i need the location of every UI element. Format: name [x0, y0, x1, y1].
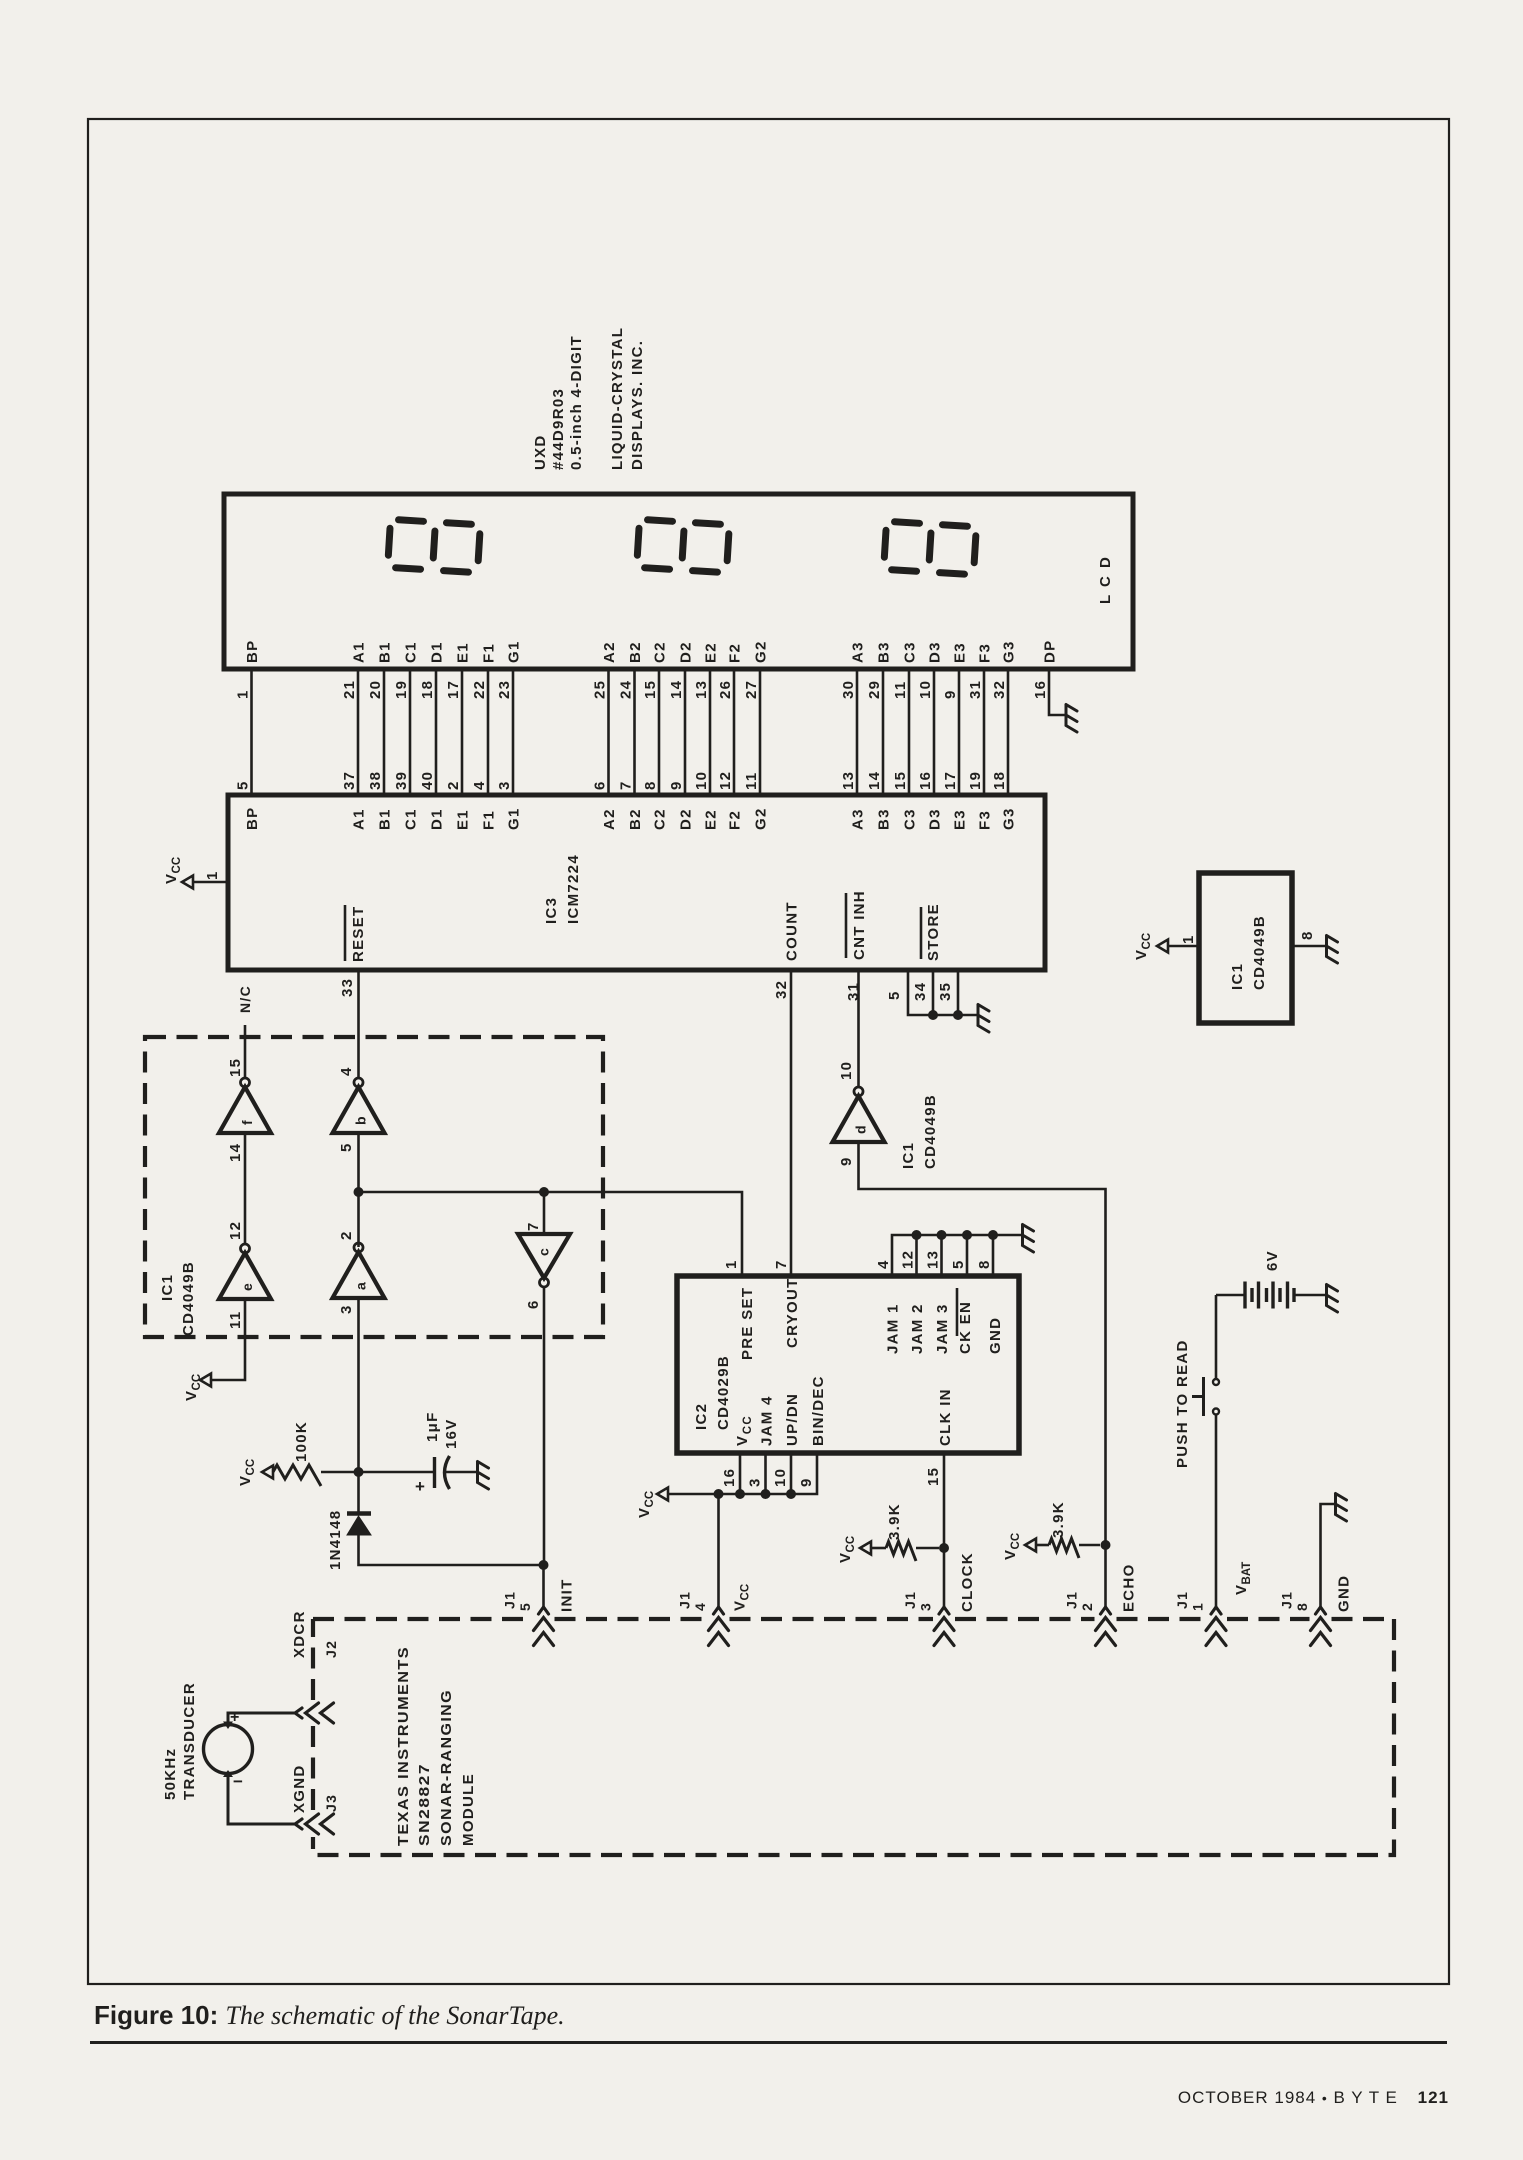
svg-text:11: 11 [227, 1311, 244, 1329]
wire switch to connector J1-1 [1215, 1415, 1218, 1608]
VCC arrow at inverter e pin 11 [200, 1374, 211, 1387]
svg-text:32: 32 [991, 680, 1008, 699]
svg-text:D3: D3 [927, 641, 944, 663]
connector J1-1 VBAT [1174, 1562, 1253, 1646]
svg-text:D3: D3 [927, 808, 944, 830]
battery 6V [1216, 1250, 1326, 1308]
ground at IC2 JAM bus [1023, 1225, 1034, 1253]
7-segment digit 3 [884, 521, 977, 574]
svg-text:STORE: STORE [925, 903, 942, 961]
wire E3: LCD pin 9 to IC3 pin 17 [942, 642, 969, 830]
svg-text:C1: C1 [403, 641, 420, 663]
wire C1: LCD pin 19 to IC3 pin 39 [393, 641, 420, 830]
wire RESET: IC3 pin 33 to inverter b [357, 970, 360, 1078]
svg-text:7: 7 [773, 1259, 790, 1269]
junction node inverter a/b [354, 1187, 364, 1197]
svg-text:4: 4 [692, 1602, 708, 1611]
svg-text:1: 1 [1190, 1602, 1206, 1611]
wire D3: LCD pin 10 to IC3 pin 16 [917, 641, 944, 830]
svg-text:11: 11 [892, 681, 909, 699]
wire F1: LCD pin 22 to IC3 pin 4 [471, 643, 498, 830]
svg-text:31: 31 [967, 680, 984, 699]
svg-text:14: 14 [866, 771, 883, 790]
svg-text:D2: D2 [678, 641, 695, 663]
svg-text:16: 16 [917, 771, 934, 790]
svg-text:14: 14 [668, 680, 685, 699]
svg-text:9: 9 [798, 1477, 815, 1487]
svg-text:D2: D2 [678, 808, 695, 830]
wire C3: LCD pin 11 to IC3 pin 15 [892, 641, 919, 830]
svg-text:c: c [536, 1247, 552, 1256]
VCC arrow at IC1 pin 1 [1133, 933, 1199, 960]
wire battery to switch [1215, 1295, 1218, 1379]
svg-text:CK EN: CK EN [957, 1301, 974, 1354]
wire G2: LCD pin 27 to IC3 pin 11 [743, 640, 770, 830]
svg-text:32: 32 [773, 980, 790, 999]
svg-text:8: 8 [976, 1259, 993, 1269]
svg-text:15: 15 [892, 771, 909, 790]
svg-text:34: 34 [912, 982, 929, 1001]
svg-text:LIQUID-CRYSTAL: LIQUID-CRYSTAL [609, 327, 626, 470]
svg-text:4: 4 [338, 1066, 355, 1076]
svg-text:15: 15 [227, 1058, 244, 1077]
svg-text:L C D: L C D [1097, 555, 1114, 604]
resistor R 3.9K on CLOCK [871, 1503, 939, 1561]
svg-text:1: 1 [204, 870, 221, 880]
svg-text:E3: E3 [952, 809, 969, 830]
dashed outline TI SN28827 sonar-ranging module [313, 1617, 1394, 1621]
svg-text:b: b [353, 1115, 369, 1125]
resistor R 100K [273, 1421, 359, 1486]
svg-text:JAM 4: JAM 4 [759, 1395, 776, 1446]
wire node to IC2 PRE SET pin 1 [359, 1192, 743, 1276]
junction ECHO [1101, 1540, 1111, 1550]
ground at IC1 pin 8 [1327, 936, 1338, 964]
junction RC node [354, 1467, 364, 1477]
svg-text:5: 5 [950, 1259, 967, 1269]
svg-text:A1: A1 [351, 641, 368, 663]
svg-text:Figure 10: The schematic of th: Figure 10: The schematic of the SonarTap… [94, 2000, 565, 2030]
wire E1: LCD pin 17 to IC3 pin 2 [445, 642, 472, 830]
svg-text:4: 4 [471, 780, 488, 790]
svg-text:A2: A2 [601, 808, 618, 830]
pushbutton switch PUSH TO READ [1174, 1339, 1219, 1468]
wire connector J1-8 to ground [1321, 1504, 1336, 1607]
svg-text:15: 15 [642, 680, 659, 699]
svg-text:GND: GND [1336, 1575, 1353, 1612]
svg-text:B1: B1 [377, 808, 394, 830]
svg-text:23: 23 [496, 680, 513, 699]
connector J2 XDCR [291, 1610, 339, 1723]
svg-text:G1: G1 [506, 807, 523, 830]
svg-text:ECHO: ECHO [1121, 1563, 1138, 1612]
wire to connector J1-5 INIT [542, 1565, 545, 1607]
svg-text:COUNT: COUNT [784, 901, 801, 961]
wire transducer - to J3 XGND [228, 1774, 295, 1825]
IC2 CD4029B counter [677, 1276, 1019, 1453]
LCD manufacturer note [532, 327, 646, 470]
svg-text:#44D9R03: #44D9R03 [550, 388, 567, 470]
svg-text:N/C: N/C [237, 985, 253, 1013]
svg-text:1N4148: 1N4148 [327, 1510, 344, 1570]
svg-text:MODULE: MODULE [460, 1773, 477, 1846]
wire F2: LCD pin 26 to IC3 pin 12 [717, 643, 744, 830]
svg-text:1: 1 [1180, 934, 1197, 944]
wire D2: LCD pin 14 to IC3 pin 9 [668, 641, 695, 830]
svg-text:24: 24 [618, 680, 635, 699]
svg-text:22: 22 [471, 680, 488, 699]
wire IC2 CLK IN pin 15 to CLOCK [925, 1453, 944, 1607]
svg-text:5: 5 [517, 1602, 533, 1611]
wire COUNT: IC3 pin 32 to IC2 CRYOUT pin 7 [790, 970, 793, 1276]
svg-text:J2: J2 [323, 1640, 339, 1658]
VCC arrow at IC2 pin 16 bus [657, 1488, 668, 1501]
svg-text:10: 10 [917, 680, 934, 699]
wire D1: LCD pin 18 to IC3 pin 40 [419, 641, 446, 830]
junction CLOCK [939, 1543, 949, 1553]
svg-text:E1: E1 [455, 809, 472, 830]
svg-text:10: 10 [772, 1468, 789, 1487]
connector J1-8 GND [1279, 1575, 1353, 1646]
svg-text:IC3: IC3 [543, 897, 560, 924]
svg-text:J1: J1 [902, 1591, 918, 1609]
svg-text:−: − [233, 1772, 243, 1791]
svg-text:9: 9 [668, 780, 685, 790]
svg-text:1: 1 [723, 1259, 740, 1269]
svg-text:C3: C3 [902, 641, 919, 663]
inverter IC1c [518, 1234, 570, 1287]
7-segment digit 1 [388, 519, 481, 572]
svg-text:PRE SET: PRE SET [739, 1287, 756, 1360]
capacitor C 1uF 16V [359, 1411, 478, 1496]
svg-text:15: 15 [925, 1467, 942, 1486]
ground at capacitor [478, 1462, 489, 1490]
svg-text:C2: C2 [652, 808, 669, 830]
svg-text:J1: J1 [1279, 1591, 1295, 1609]
svg-text:TEXAS INSTRUMENTS: TEXAS INSTRUMENTS [395, 1646, 412, 1846]
svg-text:10: 10 [693, 771, 710, 790]
svg-text:13: 13 [925, 1250, 942, 1269]
IC3 RESET pin 33 label [339, 905, 367, 997]
svg-text:CLOCK: CLOCK [959, 1552, 976, 1612]
svg-text:27: 27 [743, 680, 760, 699]
svg-text:G1: G1 [506, 640, 523, 663]
svg-text:DISPLAYS. INC.: DISPLAYS. INC. [629, 340, 646, 470]
svg-text:D1: D1 [429, 808, 446, 830]
wire transducer + to J2 XDCR [228, 1713, 295, 1725]
svg-text:F3: F3 [977, 643, 994, 663]
wire N/C stub at inverter f pin 15 [227, 985, 253, 1078]
svg-text:3.9K: 3.9K [886, 1503, 903, 1540]
wire G3: LCD pin 32 to IC3 pin 18 [991, 640, 1018, 830]
svg-text:1: 1 [235, 689, 252, 699]
svg-text:BP: BP [244, 640, 261, 663]
VCC arrow at CLOCK resistor [860, 1542, 871, 1555]
svg-text:8: 8 [642, 780, 659, 790]
IC3 ICM7224 LCD counter/driver [228, 795, 1045, 970]
inverter IC1e [219, 1244, 271, 1299]
svg-text:B2: B2 [627, 641, 644, 663]
IC3 CNT INH pin 31 label [845, 890, 868, 1001]
svg-text:IC1: IC1 [1229, 963, 1246, 990]
resistor R 3.9K on ECHO [1036, 1501, 1100, 1558]
wire inverter d pin 9 to ECHO line [859, 1142, 1106, 1608]
svg-text:XGND: XGND [291, 1764, 308, 1813]
svg-text:6: 6 [525, 1299, 542, 1309]
wire C2: LCD pin 15 to IC3 pin 8 [642, 641, 669, 830]
svg-text:J3: J3 [323, 1794, 339, 1812]
svg-text:9: 9 [838, 1156, 855, 1166]
svg-text:17: 17 [445, 680, 462, 699]
VCC arrow at ECHO resistor [1025, 1539, 1036, 1552]
svg-text:BIN/DEC: BIN/DEC [810, 1375, 827, 1446]
svg-text:20: 20 [367, 680, 384, 699]
svg-text:4: 4 [875, 1259, 892, 1269]
svg-text:CLK IN: CLK IN [937, 1388, 954, 1446]
svg-text:5: 5 [886, 990, 903, 1000]
inverter IC1f [219, 1078, 271, 1133]
svg-text:E1: E1 [455, 642, 472, 663]
ground at LCD DP [1066, 705, 1077, 733]
svg-text:F3: F3 [977, 810, 994, 830]
svg-text:37: 37 [341, 771, 358, 790]
svg-text:13: 13 [693, 680, 710, 699]
wire inverter e pin 11 to VCC [212, 1297, 245, 1380]
svg-text:8: 8 [1294, 1602, 1310, 1611]
svg-text:2: 2 [445, 780, 462, 790]
svg-text:39: 39 [393, 771, 410, 790]
svg-text:A2: A2 [601, 641, 618, 663]
inverter IC1d [838, 1061, 855, 1080]
inverter IC1a [333, 1243, 385, 1298]
svg-text:12: 12 [717, 771, 734, 790]
svg-text:29: 29 [866, 680, 883, 699]
svg-text:J1: J1 [677, 1591, 693, 1609]
svg-text:B3: B3 [876, 808, 893, 830]
wire B2: LCD pin 24 to IC3 pin 7 [618, 641, 645, 830]
wire IC2 VCC bus to connector J1-4 [717, 1494, 720, 1607]
svg-text:G2: G2 [753, 807, 770, 830]
wire inverter c pin 6 to INIT [543, 1287, 546, 1565]
svg-text:2: 2 [338, 1230, 355, 1240]
LCD display module UXD 44D9R03 [224, 494, 1133, 669]
IC3 STORE pins 5,34,35 [886, 903, 978, 1020]
svg-text:7: 7 [525, 1221, 542, 1231]
junction node at inverter c input [539, 1187, 549, 1197]
svg-text:JAM 1: JAM 1 [885, 1303, 902, 1354]
dashed outline IC1 CD4049B inverter group [145, 1037, 603, 1337]
svg-text:26: 26 [717, 680, 734, 699]
svg-text:5: 5 [235, 780, 252, 790]
svg-text:CD4049B: CD4049B [1251, 915, 1268, 990]
svg-text:6: 6 [592, 780, 609, 790]
svg-text:2: 2 [1079, 1602, 1095, 1611]
wire inverter f pin 14 to e pin 12 [227, 1133, 245, 1244]
svg-text:3: 3 [747, 1477, 764, 1487]
wire B1: LCD pin 20 to IC3 pin 38 [367, 641, 394, 830]
svg-text:F1: F1 [481, 643, 498, 663]
svg-text:SONAR-RANGING: SONAR-RANGING [438, 1689, 455, 1846]
svg-text:21: 21 [341, 680, 358, 699]
svg-text:10: 10 [838, 1061, 855, 1080]
svg-text:8: 8 [1299, 930, 1316, 940]
svg-text:G3: G3 [1001, 640, 1018, 663]
svg-text:14: 14 [227, 1143, 244, 1162]
svg-text:B1: B1 [377, 641, 394, 663]
wire A2: LCD pin 25 to IC3 pin 6 [592, 641, 619, 830]
VCC arrow at 100K [262, 1466, 273, 1479]
wire F3: LCD pin 31 to IC3 pin 19 [967, 643, 994, 830]
svg-text:0.5-inch 4-DIGIT: 0.5-inch 4-DIGIT [568, 335, 585, 470]
svg-text:INIT: INIT [559, 1578, 576, 1612]
svg-text:A1: A1 [351, 808, 368, 830]
svg-text:RESET: RESET [350, 905, 367, 962]
svg-text:DP: DP [1042, 640, 1059, 663]
wire CNT INH: IC3 pin 31 to inverter d [857, 970, 860, 1087]
svg-text:BP: BP [244, 807, 261, 830]
svg-text:7: 7 [618, 780, 635, 790]
IC2 JAM pins 4,12,13,5,8 to ground [875, 1230, 1022, 1354]
transducer 50KHz [162, 1682, 253, 1800]
svg-text:19: 19 [393, 680, 410, 699]
svg-text:18: 18 [419, 680, 436, 699]
svg-text:E2: E2 [703, 809, 720, 830]
svg-text:12: 12 [227, 1221, 244, 1240]
svg-text:30: 30 [840, 680, 857, 699]
svg-text:50KHz: 50KHz [162, 1748, 179, 1800]
svg-text:38: 38 [367, 771, 384, 790]
svg-text:3.9K: 3.9K [1050, 1501, 1067, 1538]
svg-text:16: 16 [721, 1468, 738, 1487]
svg-text:CNT INH: CNT INH [851, 890, 868, 960]
svg-text:25: 25 [592, 680, 609, 699]
svg-text:TRANSDUCER: TRANSDUCER [181, 1682, 198, 1800]
IC3 COUNT pin 32 label [773, 901, 801, 999]
wire DP: LCD pin 16 to ground [1032, 640, 1066, 715]
svg-text:CD4029B: CD4029B [715, 1355, 732, 1430]
svg-text:J1: J1 [502, 1591, 518, 1609]
svg-text:16: 16 [1032, 680, 1049, 699]
wire E2: LCD pin 13 to IC3 pin 10 [693, 642, 720, 830]
ground at battery [1327, 1285, 1338, 1313]
wire A1: LCD pin 21 to IC3 pin 37 [341, 641, 368, 830]
connector J1-2 ECHO [1064, 1563, 1138, 1645]
svg-text:E3: E3 [952, 642, 969, 663]
svg-text:3: 3 [918, 1602, 934, 1611]
IC1 CD4049B power block [1199, 873, 1292, 1023]
svg-text:GND: GND [987, 1317, 1004, 1354]
svg-text:A3: A3 [850, 808, 867, 830]
wire B3: LCD pin 29 to IC3 pin 14 [866, 641, 893, 830]
svg-text:1μF: 1μF [424, 1411, 441, 1442]
svg-text:9: 9 [942, 689, 959, 699]
svg-text:16V: 16V [443, 1418, 460, 1449]
7-segment digit 2 [637, 519, 730, 572]
svg-text:J1: J1 [1174, 1591, 1190, 1609]
svg-text:UP/DN: UP/DN [784, 1393, 801, 1446]
diode D 1N4148 [327, 1472, 540, 1570]
connector J1-4 VCC [677, 1584, 752, 1646]
connector J1-3 CLOCK [902, 1552, 976, 1645]
svg-text:F2: F2 [727, 643, 744, 663]
IC2 bottom pins 16,3,10,9 to VCC bus [668, 1375, 954, 1499]
svg-text:35: 35 [937, 982, 954, 1001]
svg-text:11: 11 [743, 772, 760, 790]
wire inverter b pin 5 to node [338, 1133, 359, 1247]
ground at IC3 STORE pins [978, 1005, 989, 1033]
junction INIT node [539, 1560, 549, 1570]
ground at J1-8 GND [1336, 1494, 1347, 1522]
svg-text:d: d [853, 1124, 869, 1134]
wire inverter a pin 3 to RC node [338, 1298, 359, 1472]
svg-text:100K: 100K [293, 1421, 310, 1462]
svg-text:3: 3 [496, 780, 513, 790]
svg-text:D1: D1 [429, 641, 446, 663]
wire A3: LCD pin 30 to IC3 pin 13 [840, 641, 867, 830]
svg-text:F1: F1 [481, 810, 498, 830]
svg-text:JAM 3: JAM 3 [934, 1303, 951, 1354]
svg-text:CRYOUT: CRYOUT [784, 1277, 801, 1348]
svg-text:F2: F2 [727, 810, 744, 830]
wire IC1 pin 8 to ground [1292, 945, 1326, 948]
svg-text:B2: B2 [627, 808, 644, 830]
svg-text:12: 12 [900, 1250, 917, 1269]
svg-text:CD4049B: CD4049B [922, 1094, 939, 1169]
svg-text:IC1: IC1 [159, 1274, 176, 1301]
svg-text:ICM7224: ICM7224 [565, 854, 582, 924]
svg-text:C1: C1 [403, 808, 420, 830]
wire G1: LCD pin 23 to IC3 pin 3 [496, 640, 523, 830]
svg-text:JAM 2: JAM 2 [909, 1303, 926, 1354]
svg-text:CD4049B: CD4049B [180, 1261, 197, 1336]
svg-text:33: 33 [339, 978, 356, 997]
svg-text:e: e [239, 1282, 255, 1291]
svg-text:3: 3 [338, 1304, 355, 1314]
VCC arrow at IC3 pin 1 [163, 857, 228, 889]
svg-text:SN28827: SN28827 [416, 1763, 433, 1846]
svg-text:UXD: UXD [532, 434, 549, 470]
svg-text:+: + [415, 1477, 425, 1496]
inverter IC1b [338, 1066, 355, 1076]
svg-text:C3: C3 [902, 808, 919, 830]
wire BP: LCD pin 1 to IC3 pin 5 [235, 640, 262, 830]
connector J1-5 INIT [502, 1578, 576, 1645]
svg-text:IC1: IC1 [900, 1142, 917, 1169]
connector J3 XGND [291, 1764, 339, 1834]
svg-text:PUSH TO READ: PUSH TO READ [1174, 1339, 1191, 1468]
svg-text:a: a [353, 1281, 369, 1290]
svg-text:13: 13 [840, 771, 857, 790]
svg-text:G3: G3 [1001, 807, 1018, 830]
svg-text:E2: E2 [703, 642, 720, 663]
svg-text:C2: C2 [652, 641, 669, 663]
svg-text:40: 40 [419, 771, 436, 790]
svg-text:5: 5 [338, 1142, 355, 1152]
svg-text:B3: B3 [876, 641, 893, 663]
svg-text:f: f [239, 1119, 255, 1125]
svg-text:19: 19 [967, 771, 984, 790]
svg-text:J1: J1 [1064, 1591, 1080, 1609]
svg-text:IC2: IC2 [693, 1403, 710, 1430]
svg-text:18: 18 [991, 771, 1008, 790]
svg-text:XDCR: XDCR [291, 1610, 308, 1658]
wire inverter c pin 7 [525, 1192, 544, 1234]
svg-text:17: 17 [942, 771, 959, 790]
svg-text:6V: 6V [1264, 1250, 1281, 1271]
svg-text:G2: G2 [753, 640, 770, 663]
svg-text:A3: A3 [850, 641, 867, 663]
